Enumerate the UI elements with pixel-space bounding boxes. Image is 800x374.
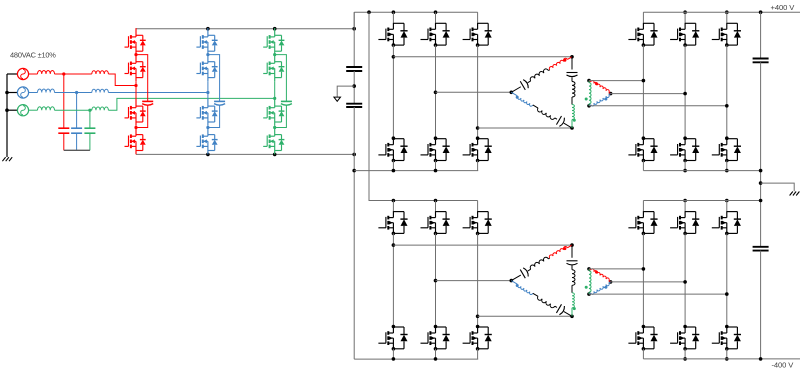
wire L1 to filter-cap node phase B (blue) xyxy=(55,92,77,94)
node rect DC- to link xyxy=(352,153,356,157)
wire DC link vertical upper xyxy=(353,12,355,67)
node DAB1 output bridge bottom switch source leg2 xyxy=(683,159,687,163)
capacitor Cf bottom lead phase C (green) xyxy=(89,133,91,150)
wire DAB1 input bridge bottom switch source leg2 xyxy=(435,161,437,171)
MOSFET Q12 leg C (green) pos4 xyxy=(263,128,284,155)
node DAB2 secondary right vertex xyxy=(609,280,613,284)
MOSFET Q9 leg C (green) pos1 xyxy=(263,28,284,55)
node DAB1 input bridge bottom switch source leg1 xyxy=(392,159,396,163)
node DAB1 output bridge phase tap leg2 xyxy=(683,92,687,96)
AC source VA phase A (red) xyxy=(17,68,28,79)
transformer DAB1 secondary winding B (blue) xyxy=(589,104,591,107)
inductor DAB1 resonant Lr phase B xyxy=(538,108,555,119)
capacitor Cf lead phase C (green) xyxy=(89,110,91,128)
wire Q12 source to rail leg C (green) xyxy=(274,153,276,155)
node S1-S2 junction leg A (red) xyxy=(134,53,137,56)
wire DAB1 output bridge leg1 midleg xyxy=(642,45,644,138)
wire DAB1 side A segment xyxy=(528,81,531,83)
wire phase A jog to converter xyxy=(108,74,136,86)
transformer DAB2 primary winding A (red) xyxy=(549,247,567,259)
node DAB2 primary delta bottom-right vertex xyxy=(570,315,574,319)
node DAB1 input bridge bottom switch source leg2 xyxy=(434,159,438,163)
node DAB1 input bridge leg1 bottom rail connection xyxy=(392,169,396,173)
wire DAB1 delta side A lead xyxy=(511,87,520,93)
node output bus rail1 tap xyxy=(759,169,763,173)
MOSFET DAB1 output bridge bottom switch leg2 xyxy=(683,136,687,140)
inductor DAB2 resonant Lr phase A xyxy=(530,257,548,269)
polarity dot DAB2 secondary B xyxy=(604,286,607,289)
node leg B (blue) bottom rail xyxy=(206,153,210,157)
wire ground branch xyxy=(761,183,795,191)
node S3-S4 junction leg B (blue) xyxy=(206,126,209,129)
node DAB1 primary delta top-right vertex xyxy=(570,55,574,59)
wire DAB1 input bridge bottom switch source leg3 xyxy=(477,161,479,171)
wire rectifier DC+ rail xyxy=(136,28,354,30)
MOSFET DAB2 output bridge top switch leg1 xyxy=(642,201,644,212)
wire S3-S4 stub leg C (green) xyxy=(274,126,276,128)
capacitor DAB2 resonant Cr phase B xyxy=(556,304,561,313)
wire flying cap bottom lead leg A (red) xyxy=(136,105,148,127)
wire DAB2 output bridge bottom switch source leg1 xyxy=(642,349,644,359)
wire output bus mid1 xyxy=(760,62,762,247)
wire DAB1 output bridge leg2 midleg xyxy=(684,45,686,138)
node S3-S4 junction leg A (red) xyxy=(134,126,137,129)
wire bottom bridge DC- rail xyxy=(354,358,478,360)
inductor L2 phase C (green) xyxy=(92,107,109,110)
MOSFET Q2 leg A (red) pos2 xyxy=(125,55,146,82)
capacitor Cf lead phase A (red) xyxy=(63,74,65,128)
capacitor DAB2 resonant Cr phase C xyxy=(567,260,578,262)
MOSFET Q8 leg B (blue) pos4 xyxy=(196,128,217,155)
wire S3-S4 stub leg B (blue) xyxy=(207,126,209,128)
wire flying cap bottom lead leg B (blue) xyxy=(208,105,220,127)
node DC+ drop vertical xyxy=(367,10,371,14)
node phase C at green leg midpoint xyxy=(273,97,276,100)
wire DAB2 phase1 line to transformer xyxy=(393,244,572,246)
wire DAB2 output bridge bottom switch source leg2 xyxy=(684,349,686,359)
inductor L1 phase B (blue) xyxy=(38,89,55,93)
MOSFET DAB1 output bridge top switch leg3 xyxy=(726,12,728,23)
MOSFET DAB2 output bridge bottom switch leg2 xyxy=(683,325,687,329)
node filter cap tap phase C (green) xyxy=(88,109,91,112)
transformer DAB2 secondary winding B (blue) xyxy=(589,292,591,295)
wire DAB2 side C segment xyxy=(571,266,573,270)
wire flying cap top lead leg B (blue) xyxy=(208,55,220,102)
node DC- top bridge rail tap xyxy=(352,169,356,173)
wire bus to source phase A (red) xyxy=(7,73,18,75)
node DAB1 secondary right vertex xyxy=(609,92,613,96)
capacitor Cdc1 upper DC link xyxy=(346,66,362,68)
node S3-S4 junction leg C (green) xyxy=(273,126,276,129)
wire Q4 source to rail leg A (red) xyxy=(135,153,137,155)
wire DC+ vertical to bottom bridge xyxy=(369,12,478,200)
capacitor DAB1 resonant Cr phase B xyxy=(556,116,561,125)
wire DAB1 side A segment 2 xyxy=(548,69,549,72)
wire DAB2 side B to vertex xyxy=(564,312,572,317)
wire drain stub Q9 leg C (green) xyxy=(274,27,276,30)
wire Q2 source to midpoint leg A (red) xyxy=(135,81,137,85)
wire source to L1 phase A (red) xyxy=(29,73,38,75)
DAB1 output bridge leg3 top rail connection xyxy=(725,10,729,14)
wire filter cap star point xyxy=(64,149,90,151)
wire Q10 source to midpoint leg C (green) xyxy=(274,81,276,98)
polarity dot DAB2 secondary C xyxy=(585,286,588,289)
MOSFET DAB1 input bridge top switch leg3 xyxy=(477,12,479,23)
node DAB2 secondary bottom-left vertex xyxy=(587,292,591,296)
wire DAB1 input bridge leg2 midleg xyxy=(435,45,437,138)
wire midpoint to Q3 leg A (red) xyxy=(135,86,137,100)
wire phase B to converter xyxy=(108,92,207,94)
wire DAB1 delta side B lead xyxy=(511,92,517,96)
wire DAB1 phase3 line to transformer xyxy=(478,127,572,129)
wire top bridge DC- rail xyxy=(354,170,478,172)
node DAB1 primary delta left vertex xyxy=(510,91,514,95)
MOSFET DAB2 input bridge bottom switch leg1 xyxy=(392,325,396,329)
ground earth symbol right xyxy=(790,192,800,196)
MOSFET Q7 leg B (blue) pos3 xyxy=(196,99,217,126)
wire DAB1 output bridge top rail xyxy=(643,11,800,13)
wire DC link top corner xyxy=(353,12,355,29)
wire L1 to filter-cap node phase A (red) xyxy=(55,73,64,75)
polarity dot DAB1 secondary B xyxy=(604,98,607,101)
wire DAB2 input bridge bottom switch source leg1 xyxy=(392,349,394,359)
inductor L2 phase B (blue) xyxy=(92,89,109,92)
wire DAB1 input bridge leg3 midleg xyxy=(477,45,479,138)
capacitor Cf phase A (red) xyxy=(58,127,69,129)
wire output bus lower xyxy=(760,251,762,359)
node S1-S2 junction leg C (green) xyxy=(273,53,276,56)
node DAB1 input bridge bottom switch source leg3 xyxy=(476,159,480,163)
polarity dot DAB2 secondary A xyxy=(595,271,598,274)
MOSFET DAB2 output bridge bottom switch leg3 xyxy=(725,325,729,329)
wire DAB2 input bridge leg2 midleg xyxy=(435,233,437,326)
wire DAB2 input bridge bottom switch source leg2 xyxy=(435,349,437,359)
node DAB1 output bridge phase tap leg1 xyxy=(642,79,646,83)
MOSFET Q3 leg A (red) pos3 xyxy=(125,99,146,126)
inductor DAB1 resonant Lr phase C xyxy=(572,82,575,98)
wire cap node to L2 phase C (green) xyxy=(90,109,92,111)
wire DAB2 phase2 line to transformer xyxy=(436,280,512,282)
node DAB2 input bridge phase tap leg2 xyxy=(434,279,438,283)
wire DAB2 side B segment 2 xyxy=(555,306,557,307)
DAB1 output bridge leg2 top rail connection xyxy=(683,10,687,14)
node DAB2 input bridge top switch source leg3 xyxy=(476,232,480,236)
node DAB2 input bridge top switch source leg2 xyxy=(434,232,438,236)
wire DAB2 side C to vertex xyxy=(571,308,573,317)
wire Q6 source to midpoint leg B (blue) xyxy=(207,81,209,92)
wire S3-S4 stub leg A (red) xyxy=(135,126,137,128)
polarity dot DAB1 primary C xyxy=(573,119,576,122)
wire rectifier DC- rail xyxy=(136,153,354,155)
MOSFET DAB1 output bridge top switch leg1 xyxy=(642,12,644,23)
wire output bus upper xyxy=(760,12,762,58)
transformer DAB1 secondary winding A (red) xyxy=(589,81,591,82)
DAB2 output bridge leg2 top rail connection xyxy=(683,199,687,203)
node output bus -400V tap xyxy=(759,357,763,361)
capacitor Cf bottom lead phase B (blue) xyxy=(76,133,78,150)
wire DAB2 secondary out2 xyxy=(611,281,686,283)
MOSFET Q4 leg A (red) pos4 xyxy=(125,128,146,155)
node DAB2 output bridge bottom switch source leg1 xyxy=(642,347,646,351)
wire DAB2 output bridge bottom rail xyxy=(643,358,800,360)
MOSFET DAB1 input bridge bottom switch leg3 xyxy=(476,136,480,140)
node phase A at red leg midpoint xyxy=(134,84,137,87)
node DAB2 primary delta top-right vertex xyxy=(570,243,574,247)
node rect DC+ to link xyxy=(352,27,356,31)
wire DAB2 delta side B lead xyxy=(511,281,517,285)
wire DAB2 side A segment 2 xyxy=(548,257,549,260)
node bus-phase B junction xyxy=(5,91,9,95)
MOSFET DAB2 input bridge top switch leg1 xyxy=(392,201,394,212)
MOSFET DAB2 output bridge top switch leg3 xyxy=(726,201,728,212)
node DAB2 input bridge leg1 bottom rail connection xyxy=(392,357,396,361)
wire DAB1 side A to vertex xyxy=(567,57,572,60)
capacitor Cout1 xyxy=(753,58,769,60)
flying capacitor Cfly leg B (blue) xyxy=(214,100,225,102)
node DAB2 input bridge bottom switch source leg1 xyxy=(392,347,396,351)
wire DAB1 input bridge leg1 midleg xyxy=(392,45,394,138)
wire DAB1 side C to vertex xyxy=(571,120,573,129)
MOSFET DAB1 output bridge bottom switch leg3 xyxy=(725,136,729,140)
node DAB1 input bridge leg2 bottom rail connection xyxy=(434,169,438,173)
node DAB1 input bridge phase tap leg2 xyxy=(434,91,438,95)
DAB1 input bridge leg2 top rail connection xyxy=(434,10,438,14)
MOSFET DAB1 input bridge top switch leg1 xyxy=(392,12,394,23)
wire DAB1 output bridge bottom rail xyxy=(643,170,760,172)
wire DAB2 input bridge leg3 midleg xyxy=(477,233,479,326)
node DAB1 output bridge top switch source leg3 xyxy=(725,43,729,47)
wire bus to source phase C (green) xyxy=(7,109,18,111)
node DAB1 output bridge leg3 bottom rail connection xyxy=(725,169,729,173)
MOSFET DAB1 output bridge bottom switch leg1 xyxy=(642,136,646,140)
flying capacitor Cfly leg A (red) xyxy=(142,100,153,102)
wire DAB2 side B segment xyxy=(533,293,538,296)
wire DAB1 side C segment xyxy=(571,77,573,81)
svg-text:-400 V: -400 V xyxy=(772,361,795,370)
node DAB2 input bridge bottom switch source leg2 xyxy=(434,347,438,351)
wire drain stub Q1 leg A (red) xyxy=(135,27,137,30)
polarity dot DAB2 primary C xyxy=(573,307,576,310)
node DAB2 secondary top-left vertex xyxy=(587,267,591,271)
wire DAB2 side A segment xyxy=(528,269,531,271)
transformer DAB1 primary winding B (blue) xyxy=(518,96,533,106)
node DAB1 output bridge top switch source leg1 xyxy=(642,43,646,47)
wire DAB2 output bridge bottom switch source leg3 xyxy=(726,349,728,359)
ground earth symbol left xyxy=(2,157,12,161)
node leg C (green) bottom rail xyxy=(273,153,277,157)
node output bus rail2 tap xyxy=(759,199,763,203)
wire DAB1 secondary out2 xyxy=(611,93,686,95)
node DAB2 output bridge bottom switch source leg2 xyxy=(683,347,687,351)
capacitor DAB2 resonant Cr phase A xyxy=(520,270,525,279)
wire midpoint to Q7 leg B (blue) xyxy=(207,93,209,100)
polarity dot DAB1 secondary A xyxy=(595,82,598,85)
wire DAB1 delta side C lead xyxy=(571,57,573,70)
node DAB2 input bridge phase tap leg1 xyxy=(392,243,396,247)
polarity dot DAB2 primary B xyxy=(516,284,519,287)
MOSFET DAB1 input bridge bottom switch leg2 xyxy=(434,136,438,140)
transformer DAB1 primary winding A (red) xyxy=(549,58,567,70)
wire DAB2 side A to vertex xyxy=(567,245,572,248)
node S1-S2 junction leg B (blue) xyxy=(206,53,209,56)
wire source to L1 phase B (blue) xyxy=(29,92,38,94)
node DAB2 input bridge bottom switch source leg3 xyxy=(476,347,480,351)
wire Q8 source to rail leg B (blue) xyxy=(207,153,209,155)
MOSFET Q5 leg B (blue) pos1 xyxy=(196,28,217,55)
node DAB1 secondary top-left vertex xyxy=(587,79,591,83)
AC source VC phase C (green) xyxy=(17,105,28,116)
node filter cap tap phase A (red) xyxy=(62,72,65,75)
inductor L1 phase A (red) xyxy=(38,70,55,74)
DAB2 input bridge leg2 top rail connection xyxy=(434,199,438,203)
inductor L2 phase A (red) xyxy=(92,71,109,74)
MOSFET Q1 leg A (red) pos1 xyxy=(125,28,146,55)
wire DAB2 delta side C lead xyxy=(571,245,573,258)
MOSFET DAB1 input bridge bottom switch leg1 xyxy=(392,136,396,140)
node DAB2 input bridge phase tap leg3 xyxy=(476,315,480,319)
inductor DAB2 resonant Lr phase C xyxy=(572,270,575,286)
wire DAB2 delta side A lead xyxy=(511,275,520,281)
node DAB2 output bridge leg3 bottom rail connection xyxy=(725,357,729,361)
wire cap node to L2 phase A (red) xyxy=(64,73,92,75)
capacitor Cout2 xyxy=(753,246,769,248)
node DAB1 input bridge phase tap leg3 xyxy=(476,126,480,130)
node leg C (green) top rail xyxy=(273,27,277,31)
capacitor DAB1 resonant Cr phase C xyxy=(567,72,578,74)
wire DAB2 secondary out3 xyxy=(589,293,727,295)
transformer DAB2 secondary winding A (red) xyxy=(589,269,591,270)
inductor DAB1 resonant Lr phase A xyxy=(530,69,548,81)
node DAB1 secondary bottom-left vertex xyxy=(587,104,591,108)
node DAB1 output bridge top switch source leg2 xyxy=(683,43,687,47)
AC source VB phase B (blue) xyxy=(17,87,28,98)
wire phase C jog to converter xyxy=(108,98,274,110)
wire midpoint to Q11 leg C (green) xyxy=(274,97,276,100)
DAB2 output bridge leg3 top rail connection xyxy=(725,199,729,203)
wire DAB1 side B segment 2 xyxy=(555,118,557,119)
wire source to L1 phase C (green) xyxy=(29,109,38,111)
wire DAB1 output bridge bottom switch source leg3 xyxy=(726,161,728,171)
wire DAB1 side C segment 2 xyxy=(571,97,573,105)
MOSFET DAB1 output bridge top switch leg2 xyxy=(684,12,686,23)
MOSFET DAB2 output bridge top switch leg2 xyxy=(684,201,686,212)
wire DAB2 output bridge leg1 midleg xyxy=(642,233,644,326)
svg-text:480VAC ±10%: 480VAC ±10% xyxy=(10,50,56,59)
MOSFET DAB2 input bridge bottom switch leg2 xyxy=(434,325,438,329)
wire DAB1 output bridge bottom switch source leg1 xyxy=(642,161,644,171)
node DAB2 input bridge leg2 bottom rail connection xyxy=(434,357,438,361)
capacitor DAB1 resonant Cr phase A xyxy=(520,81,525,90)
MOSFET Q6 leg B (blue) pos2 xyxy=(196,55,217,82)
node DAB1 output bridge bottom switch source leg1 xyxy=(642,159,646,163)
MOSFET DAB2 output bridge bottom switch leg1 xyxy=(642,325,646,329)
capacitor Cdc2 lower DC link xyxy=(346,103,362,105)
inductor L1 phase C (green) xyxy=(38,107,55,111)
MOSFET DAB2 input bridge top switch leg3 xyxy=(477,201,479,212)
wire cap node to L2 phase B (blue) xyxy=(77,92,92,94)
MOSFET Q10 leg C (green) pos2 xyxy=(263,55,284,82)
node DAB1 input bridge top switch source leg1 xyxy=(392,43,396,47)
node DAB2 output bridge phase tap leg2 xyxy=(683,280,687,284)
polarity dot DAB1 primary A xyxy=(563,59,566,62)
wire DAB1 output bridge leg3 midleg xyxy=(726,45,728,138)
node DAB1 output bridge bottom switch source leg3 xyxy=(725,159,729,163)
DAB1 input bridge leg1 top rail connection xyxy=(392,10,396,14)
node DAB1 primary delta bottom-right vertex xyxy=(570,126,574,130)
node DAB2 output bridge phase tap leg1 xyxy=(642,267,646,271)
transformer DAB2 primary winding B (blue) xyxy=(518,285,533,295)
node DAB2 output bridge leg2 bottom rail connection xyxy=(683,357,687,361)
node phase B at blue leg midpoint xyxy=(206,91,209,94)
wire DAB1 input bridge bottom switch source leg1 xyxy=(392,161,394,171)
wire drain stub Q5 leg B (blue) xyxy=(207,27,209,30)
DAB2 input bridge leg1 top rail connection xyxy=(392,199,396,203)
polarity dot DAB1 primary B xyxy=(516,96,519,99)
node DAB2 input bridge top switch source leg1 xyxy=(392,232,396,236)
wire DAB2 secondary out1 xyxy=(589,268,643,270)
wire DAB1 secondary out1 xyxy=(589,80,643,82)
wire DAB2 input bridge bottom switch source leg3 xyxy=(477,349,479,359)
node output bus ground tap xyxy=(759,181,763,185)
node DAB1 input bridge top switch source leg2 xyxy=(434,43,438,47)
node DAB2 primary delta left vertex xyxy=(510,279,514,283)
wire DAB1 side B to vertex xyxy=(564,123,572,128)
wire L1 to filter-cap node phase C (green) xyxy=(55,109,90,111)
node DAB1 output bridge leg2 bottom rail connection xyxy=(683,169,687,173)
node bus-phase C junction xyxy=(5,108,9,112)
wire flying cap top lead leg C (green) xyxy=(275,55,287,102)
wire DC link vertical lower xyxy=(353,107,355,359)
node DAB2 output bridge top switch source leg2 xyxy=(683,232,687,236)
node leg B (blue) top rail xyxy=(206,27,210,31)
capacitor Cf phase B (blue) xyxy=(71,127,82,129)
wire DAB1 side B segment xyxy=(533,105,538,108)
capacitor Cf lead phase B (blue) xyxy=(76,93,78,129)
wire flying cap bottom lead leg C (green) xyxy=(275,105,287,127)
wire DAB2 input bridge leg1 midleg xyxy=(392,233,394,326)
wire DAB1 secondary out3 xyxy=(589,105,727,107)
node DAB1 input bridge top switch source leg3 xyxy=(476,43,480,47)
node DC link midpoint xyxy=(352,84,356,88)
wire DAB2 output bridge leg3 midleg xyxy=(726,233,728,326)
MOSFET Q11 leg C (green) pos3 xyxy=(263,99,284,126)
wire DAB2 output bridge top rail xyxy=(643,200,760,202)
transformer DAB2 primary winding C (green) xyxy=(572,293,574,308)
wire DAB2 side C segment 2 xyxy=(571,285,573,293)
wire DC midpoint reference arrow xyxy=(337,86,354,97)
node DAB2 output bridge top switch source leg1 xyxy=(642,232,646,236)
wire DC link vertical middle xyxy=(353,71,355,104)
capacitor Cf bottom lead phase A (red) xyxy=(63,133,65,150)
polarity dot DAB1 secondary C xyxy=(585,98,588,101)
node output bus +400V tap xyxy=(759,10,763,14)
MOSFET DAB2 input bridge top switch leg2 xyxy=(435,201,437,212)
wire DC+ feed rail top bridge xyxy=(354,11,477,13)
wire AC input bus vertical xyxy=(6,74,8,157)
polarity dot DAB2 primary A xyxy=(563,247,566,250)
node DAB2 output bridge bottom switch source leg3 xyxy=(725,347,729,351)
wire DAB1 phase2 line to transformer xyxy=(436,91,512,93)
wire DAB1 phase1 line to transformer xyxy=(393,56,572,58)
wire bus to source phase B (blue) xyxy=(7,92,18,94)
wire DAB1 output bridge bottom switch source leg2 xyxy=(684,161,686,171)
transformer DAB1 primary winding C (green) xyxy=(572,105,574,120)
node DAB2 output bridge phase tap leg3 xyxy=(725,292,729,296)
flying capacitor Cfly leg C (green) xyxy=(281,100,292,102)
inductor DAB2 resonant Lr phase B xyxy=(538,296,555,307)
wire flying cap top lead leg A (red) xyxy=(136,55,148,102)
MOSFET DAB1 input bridge top switch leg2 xyxy=(435,12,437,23)
